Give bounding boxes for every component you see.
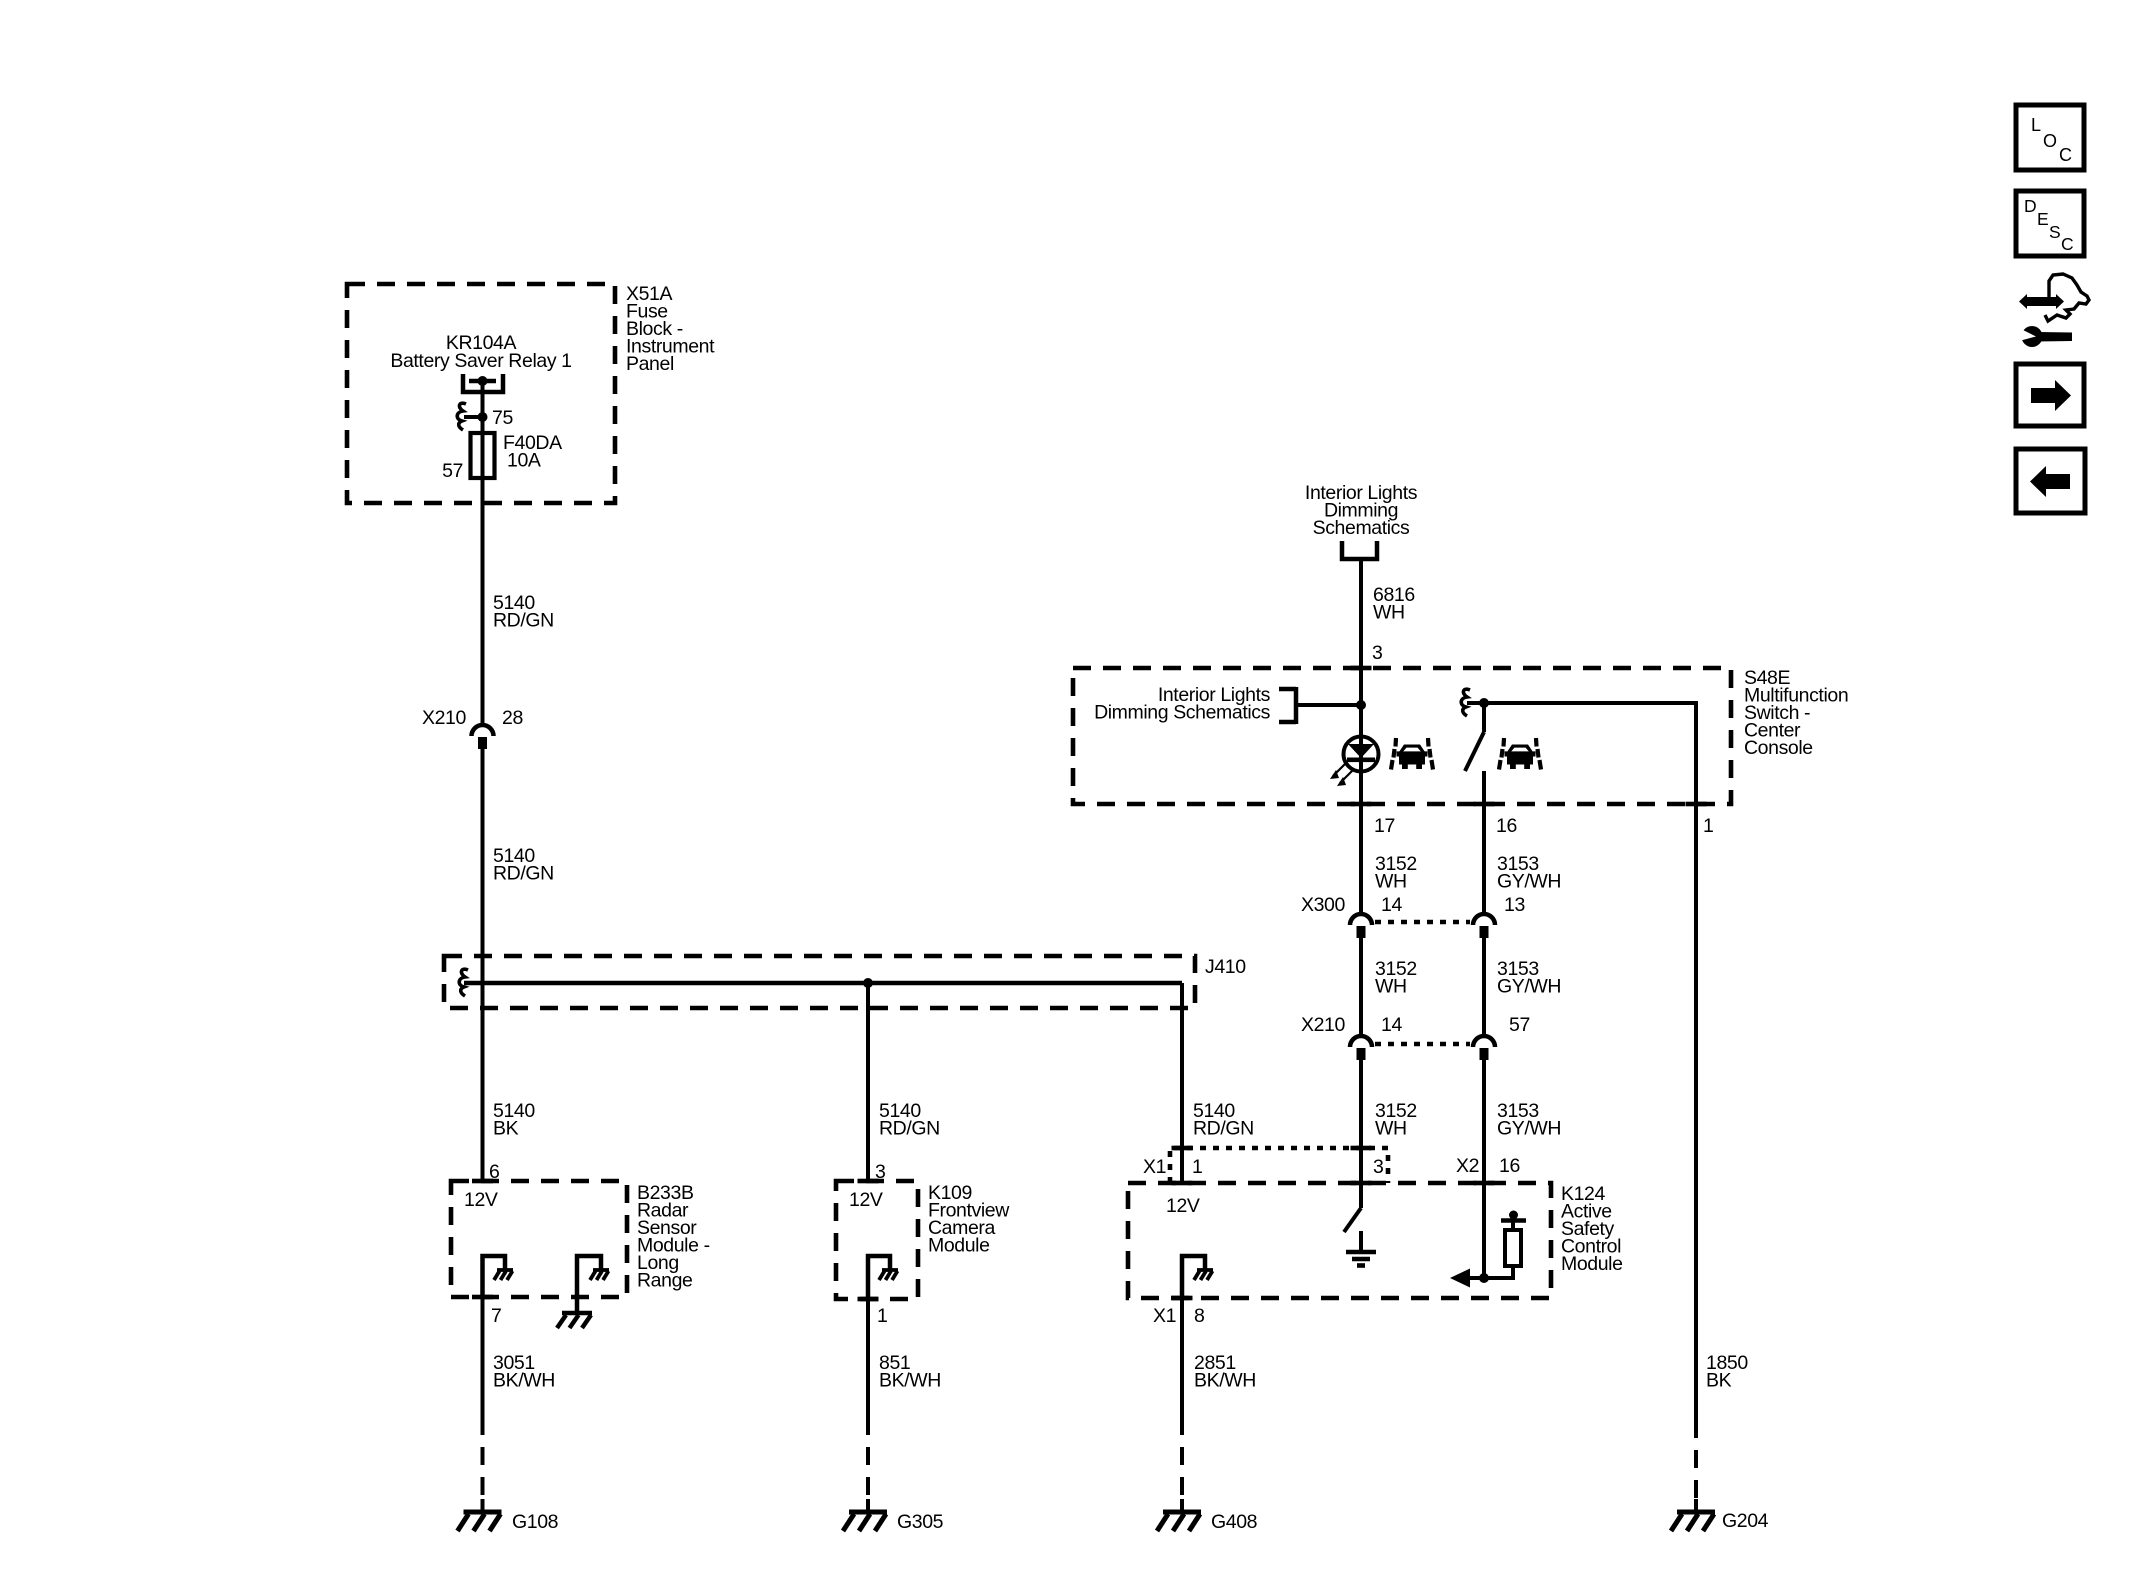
- pin 7: [491, 1305, 501, 1327]
- label 3152 WH c: [1375, 1100, 1417, 1140]
- svg-text:28: 28: [502, 707, 523, 729]
- splice bus wire: [464, 981, 1182, 986]
- pin 8 K124: [1194, 1305, 1204, 1327]
- svg-text:12V: 12V: [464, 1189, 498, 1211]
- svg-text:RD/GN: RD/GN: [493, 610, 554, 632]
- svg-text:RD/GN: RD/GN: [879, 1118, 940, 1140]
- svg-text:3: 3: [1373, 1156, 1383, 1178]
- wire 5140 RD/GN fuse to X210: [481, 478, 485, 724]
- pin 3 K109: [875, 1161, 885, 1183]
- pin bar X1-3 connector: [1351, 1146, 1372, 1151]
- pin bar B233B pin 6: [472, 1179, 493, 1184]
- svg-text:75: 75: [492, 407, 513, 429]
- label 3153 GY/WH c: [1497, 1100, 1561, 1140]
- svg-text:C: C: [2059, 145, 2072, 165]
- svg-text:J410: J410: [1205, 956, 1246, 978]
- label 5140 RD/GN K124: [1193, 1100, 1254, 1140]
- pin 13 X300: [1504, 894, 1525, 916]
- svg-text:Module: Module: [928, 1235, 990, 1257]
- label 12V K124: [1166, 1195, 1200, 1217]
- svg-text:G204: G204: [1722, 1510, 1769, 1532]
- LED indicator lamp: [1330, 737, 1379, 787]
- label X1 bottom: [1153, 1305, 1176, 1327]
- label 5140 RD/GN K109: [879, 1100, 940, 1140]
- svg-text:Range: Range: [637, 1270, 692, 1292]
- arrow to other circuits: [1450, 1269, 1484, 1288]
- icon back arrow box: [2016, 449, 2085, 513]
- K124 pullup wire: [1482, 1183, 1486, 1278]
- label 851 BK/WH: [879, 1352, 941, 1392]
- svg-text:X210: X210: [422, 707, 466, 729]
- pin 3 S48E: [1372, 642, 1382, 664]
- wire 3153 GY/WH seg3: [1482, 1060, 1486, 1183]
- relay KR104A contact: [463, 374, 503, 417]
- label 3051 BK/WH: [493, 1352, 555, 1392]
- svg-text:12V: 12V: [849, 1189, 883, 1211]
- svg-text:Panel: Panel: [626, 353, 674, 375]
- label G408: [1211, 1511, 1257, 1533]
- svg-text:1: 1: [877, 1305, 887, 1327]
- pin 1 K124: [1192, 1156, 1202, 1178]
- connector X300 pin 14: [1350, 914, 1372, 938]
- pin bar K109 pin 1: [858, 1297, 879, 1302]
- label 5140 RD/GN: [493, 592, 554, 632]
- label relay KR104A: [390, 332, 571, 372]
- icon LOC box: [2016, 105, 2084, 170]
- wire 3152 WH seg1: [1359, 804, 1363, 913]
- svg-text:G305: G305: [897, 1511, 944, 1533]
- pin 57: [442, 460, 463, 482]
- svg-text:S: S: [2049, 222, 2060, 242]
- splice hook: [459, 969, 468, 996]
- label K124 Active Safety Control Module: [1561, 1183, 1623, 1275]
- pin bar S48E pin 1: [1686, 802, 1707, 807]
- svg-text:C: C: [2061, 234, 2073, 254]
- label G305: [897, 1511, 944, 1533]
- svg-text:X300: X300: [1301, 894, 1345, 916]
- svg-text:O: O: [2043, 131, 2057, 151]
- wire 5140 RD/GN X210 to J410: [481, 749, 485, 984]
- label 5140 BK: [493, 1100, 535, 1140]
- pin bar K124 X1-8: [1172, 1296, 1193, 1301]
- label G108: [512, 1511, 558, 1533]
- pin 17: [1374, 815, 1395, 837]
- pin 57 X210: [1509, 1014, 1530, 1036]
- svg-text:GY/WH: GY/WH: [1497, 1118, 1561, 1140]
- fuse F40DA 10A: [471, 433, 495, 478]
- pin bar X1-1 connector: [1172, 1146, 1193, 1151]
- label K109 Frontview Camera Module: [928, 1182, 1010, 1257]
- B233B internal ground 2: [557, 1256, 609, 1328]
- B233B internal ground 1: [483, 1256, 514, 1297]
- switch blade: [1465, 703, 1484, 804]
- wire 5140 RD/GN J410 to K109: [866, 983, 870, 1181]
- car icon left: [1391, 738, 1433, 770]
- svg-text:BK/WH: BK/WH: [879, 1370, 941, 1392]
- connector X210 pin 28: [472, 725, 494, 749]
- icon vehicle repair: [2019, 274, 2089, 347]
- label 3153 GY/WH b: [1497, 958, 1561, 998]
- pin 6: [489, 1161, 499, 1183]
- label connector X210 pair: [1301, 1014, 1345, 1036]
- svg-text:WH: WH: [1373, 602, 1405, 624]
- svg-text:1: 1: [1703, 815, 1713, 837]
- svg-text:G108: G108: [512, 1511, 558, 1533]
- module K109 box: [836, 1181, 918, 1299]
- K124 internal ground: [1182, 1256, 1213, 1298]
- svg-text:WH: WH: [1375, 871, 1407, 893]
- pin 75: [492, 407, 513, 429]
- wire 3153 GY/WH seg2: [1482, 938, 1486, 1035]
- wire 2851 BK/WH: [1180, 1298, 1184, 1502]
- pin 14 X300: [1381, 894, 1402, 916]
- svg-text:BK: BK: [1706, 1370, 1732, 1392]
- resistor K124: [1484, 1211, 1526, 1279]
- connector X300 link: [1375, 920, 1470, 925]
- label 3152 WH a: [1375, 853, 1417, 893]
- wire 1850 BK: [1694, 804, 1698, 1502]
- pin bar S48E pin 17: [1351, 802, 1372, 807]
- wire 3153 GY/WH seg1: [1482, 804, 1486, 913]
- wire 3051 BK/WH: [481, 1297, 485, 1502]
- wire 3152 WH seg3: [1359, 1060, 1363, 1183]
- pin 1 S48E: [1703, 815, 1713, 837]
- label 12V K109: [849, 1189, 883, 1211]
- label 3152 WH b: [1375, 958, 1417, 998]
- connector X210 label: [422, 707, 466, 729]
- svg-text:8: 8: [1194, 1305, 1204, 1327]
- label 5140 RD/GN lower: [493, 845, 554, 885]
- node K124 junction: [1479, 1273, 1489, 1283]
- internal bracket: [1279, 687, 1296, 724]
- svg-text:X1: X1: [1143, 1156, 1166, 1178]
- connector X1 dotted box: [1170, 1148, 1388, 1183]
- label X1 top: [1143, 1156, 1166, 1178]
- svg-text:GY/WH: GY/WH: [1497, 976, 1561, 998]
- svg-text:BK/WH: BK/WH: [493, 1370, 555, 1392]
- pin 3 K124: [1373, 1156, 1383, 1178]
- ground G305: [843, 1499, 887, 1531]
- svg-text:BK: BK: [493, 1118, 519, 1140]
- wire 5140 RD/GN J410 to K124: [1180, 983, 1184, 1183]
- relay coil hook: [457, 403, 487, 430]
- svg-text:14: 14: [1381, 1014, 1402, 1036]
- node switch: [1467, 698, 1489, 708]
- svg-text:17: 17: [1374, 815, 1395, 837]
- svg-text:10A: 10A: [507, 450, 541, 472]
- pin bar K124 X2-16: [1474, 1181, 1495, 1186]
- svg-text:3: 3: [1372, 642, 1382, 664]
- label connector X300: [1301, 894, 1345, 916]
- svg-text:WH: WH: [1375, 976, 1407, 998]
- svg-text:13: 13: [1504, 894, 1525, 916]
- connector X300 pin 13: [1473, 914, 1495, 938]
- wire 3152 WH seg2: [1359, 938, 1363, 1035]
- svg-text:57: 57: [1509, 1014, 1530, 1036]
- label 3153 GY/WH a: [1497, 853, 1561, 893]
- wire through LED: [1359, 668, 1363, 804]
- K109 internal ground: [868, 1256, 898, 1299]
- switch hook: [1461, 689, 1470, 716]
- label 1850 BK: [1706, 1352, 1748, 1392]
- label Interior Lights Dimming Schematics top: [1305, 482, 1418, 539]
- svg-text:E: E: [2037, 209, 2048, 229]
- svg-text:12V: 12V: [1166, 1195, 1200, 1217]
- module B233B box: [451, 1181, 627, 1297]
- label F40DA 10A: [503, 432, 562, 472]
- wire relay to fuse: [481, 417, 485, 433]
- pin 16: [1496, 815, 1517, 837]
- icon next arrow box: [2016, 364, 2084, 426]
- svg-text:Battery Saver Relay 1: Battery Saver Relay 1: [390, 350, 571, 372]
- wire bracket to node: [1296, 703, 1361, 707]
- svg-text:X1: X1: [1153, 1305, 1176, 1327]
- label J410: [1205, 956, 1246, 978]
- svg-text:L: L: [2031, 115, 2041, 135]
- label G204: [1722, 1510, 1769, 1532]
- pin 1 K109: [877, 1305, 887, 1327]
- car icon right: [1499, 738, 1541, 770]
- icon DESC box: [2016, 191, 2084, 256]
- pin bar B233B pin 7: [472, 1295, 493, 1300]
- pin bar K109 pin 3: [858, 1179, 879, 1184]
- svg-text:X2: X2: [1456, 1155, 1479, 1177]
- pin bar K124 X1-1: [1172, 1181, 1193, 1186]
- wire switch to pin 1: [1484, 703, 1696, 804]
- svg-text:RD/GN: RD/GN: [493, 863, 554, 885]
- wire 6816 WH: [1359, 559, 1363, 668]
- wire 5140 BK J410 to B233B: [481, 983, 485, 1181]
- label 12V B233B: [464, 1189, 498, 1211]
- ground G408: [1157, 1499, 1201, 1531]
- label 2851 BK/WH: [1194, 1352, 1256, 1392]
- pin 14 X210: [1381, 1014, 1402, 1036]
- label X2: [1456, 1155, 1479, 1177]
- svg-text:16: 16: [1499, 1155, 1520, 1177]
- switch S48E box: [1073, 668, 1731, 804]
- svg-text:14: 14: [1381, 894, 1402, 916]
- svg-text:16: 16: [1496, 815, 1517, 837]
- svg-text:WH: WH: [1375, 1118, 1407, 1140]
- K124 earth ground: [1346, 1231, 1376, 1266]
- fuse block X51A: [347, 284, 615, 503]
- svg-text:RD/GN: RD/GN: [1193, 1118, 1254, 1140]
- module K124 box: [1128, 1183, 1551, 1298]
- ground G204: [1671, 1499, 1715, 1531]
- connector X210 pin 57: [1473, 1036, 1495, 1060]
- splice pack J410 box: [444, 956, 1195, 1008]
- label S48E Multifunction Switch - Center Console: [1744, 667, 1848, 759]
- svg-text:X210: X210: [1301, 1014, 1345, 1036]
- node splice to K109: [863, 978, 873, 988]
- wire 851 BK/WH: [866, 1299, 870, 1502]
- pin bar S48E pin 16: [1474, 802, 1495, 807]
- label X51A Fuse Block - Instrument Panel: [626, 283, 715, 375]
- K124 internal switch: [1344, 1183, 1361, 1232]
- svg-text:Module: Module: [1561, 1253, 1623, 1275]
- svg-text:GY/WH: GY/WH: [1497, 871, 1561, 893]
- svg-text:Dimming Schematics: Dimming Schematics: [1094, 702, 1271, 724]
- svg-text:G408: G408: [1211, 1511, 1257, 1533]
- off-page connector bracket: [1342, 541, 1377, 559]
- pin bar S48E pin 3: [1351, 666, 1372, 671]
- label B233B Radar Sensor Module - Long Range: [637, 1182, 710, 1292]
- svg-text:Console: Console: [1744, 737, 1813, 759]
- pin 28: [502, 707, 523, 729]
- label Interior Lights Dimming Schematics internal: [1094, 684, 1271, 724]
- svg-text:BK/WH: BK/WH: [1194, 1370, 1256, 1392]
- svg-text:1: 1: [1192, 1156, 1202, 1178]
- ground G108: [458, 1499, 502, 1531]
- label 6816 WH: [1373, 584, 1415, 624]
- pin 16 K124: [1499, 1155, 1520, 1177]
- pin bar K124 pin 3: [1351, 1181, 1372, 1186]
- svg-text:57: 57: [442, 460, 463, 482]
- connector X210 pin 14: [1350, 1036, 1372, 1060]
- svg-text:Schematics: Schematics: [1313, 517, 1410, 539]
- svg-text:7: 7: [491, 1305, 501, 1327]
- svg-text:D: D: [2024, 196, 2036, 216]
- node LED branch: [1356, 700, 1366, 710]
- connector X210 link: [1375, 1042, 1470, 1047]
